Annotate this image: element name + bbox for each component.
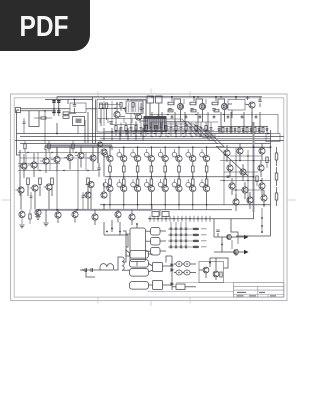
wire <box>174 263 176 265</box>
resistor R5 <box>41 117 46 119</box>
wire <box>230 155 262 157</box>
indicator diode D14 <box>175 246 177 248</box>
junction <box>151 136 152 137</box>
wire <box>206 172 208 177</box>
output transistor Q32 <box>162 186 168 192</box>
wire <box>160 240 166 242</box>
wire <box>175 122 177 126</box>
wire <box>276 160 278 166</box>
op-amp U1 pins <box>146 118 164 130</box>
capacitor C44 <box>255 117 258 118</box>
wire <box>230 127 232 128</box>
wire <box>45 210 47 222</box>
junction <box>151 204 153 206</box>
wire <box>190 272 196 274</box>
transistor Q65 <box>72 211 78 217</box>
indicator diode D7 <box>180 234 182 236</box>
boundary wire <box>56 163 58 210</box>
wire <box>150 192 152 205</box>
bus wire <box>216 176 254 178</box>
wire <box>21 218 23 224</box>
wire <box>23 154 25 163</box>
wire <box>201 179 203 182</box>
indicator diode D9 <box>170 240 172 242</box>
wire <box>255 115 257 117</box>
output transistor Q8 <box>107 156 113 162</box>
base wire <box>28 164 31 166</box>
capacitor C6 <box>109 122 112 124</box>
transformer winding T4 <box>130 282 149 290</box>
emitter resistor R38 <box>178 179 181 185</box>
wire <box>29 210 31 214</box>
junction <box>145 130 147 132</box>
wire <box>109 177 111 179</box>
resistor R12 <box>145 126 147 131</box>
connector J2 body <box>126 101 143 114</box>
wire <box>155 131 157 137</box>
capacitor C5 <box>73 105 76 107</box>
wire <box>242 127 244 129</box>
wire <box>180 129 182 137</box>
diode D18 <box>171 269 173 272</box>
driver transistor Q35 <box>172 182 177 187</box>
junction <box>189 133 191 135</box>
wire <box>104 234 128 236</box>
bus wire <box>105 131 265 133</box>
wire <box>231 110 233 118</box>
wire drop <box>243 112 245 134</box>
junction <box>109 204 111 206</box>
wire drop <box>230 112 232 134</box>
junction <box>159 136 160 137</box>
wire <box>195 122 197 126</box>
wire <box>51 185 53 197</box>
wire <box>150 177 152 179</box>
wire <box>210 123 212 128</box>
wire <box>205 99 207 104</box>
wire <box>74 218 76 223</box>
indicator diode D2 <box>175 228 177 230</box>
thick bus segment <box>38 209 152 211</box>
wire <box>266 127 268 129</box>
wire <box>261 143 263 148</box>
wire <box>164 177 166 179</box>
transistor Q49 <box>46 184 52 190</box>
wire <box>150 147 152 155</box>
left rail wire <box>19 150 21 196</box>
wire <box>130 129 132 137</box>
wire <box>99 104 121 106</box>
junction <box>119 133 121 135</box>
wire <box>139 119 141 124</box>
transistor Q24 <box>249 102 255 108</box>
wire <box>210 258 228 268</box>
wire <box>175 157 176 159</box>
wire <box>175 222 177 226</box>
tap wire <box>189 216 191 222</box>
tap wire <box>173 216 175 222</box>
output wire <box>214 236 244 238</box>
wire <box>230 224 232 228</box>
resistor R14 <box>165 126 167 131</box>
title block column line <box>267 295 269 298</box>
wire <box>131 220 133 225</box>
wire drop <box>197 112 199 134</box>
junction <box>114 108 116 110</box>
resistor R21 <box>238 128 240 132</box>
wire <box>187 179 189 182</box>
wire <box>189 157 190 159</box>
junction <box>261 225 263 227</box>
indicator diode D10 <box>175 240 177 242</box>
wire <box>262 127 264 128</box>
wire <box>147 187 148 189</box>
output transistor Q12 <box>135 156 141 162</box>
wire <box>149 284 153 286</box>
transistor Q2 <box>125 106 131 112</box>
resistor R7 <box>190 102 196 105</box>
wire <box>250 127 252 129</box>
wire <box>137 147 139 155</box>
wire <box>166 256 172 263</box>
wire <box>227 115 229 117</box>
grid column wire <box>180 226 182 249</box>
wire <box>149 270 153 272</box>
junction <box>127 136 128 137</box>
capacitor C10 <box>212 109 215 111</box>
capacitor C7 <box>23 122 26 123</box>
wire <box>185 222 187 226</box>
wire <box>146 230 151 232</box>
top supply bus <box>57 96 262 98</box>
transistor Q59 <box>242 187 248 193</box>
wire <box>45 149 47 158</box>
transformer winding T1 <box>130 251 149 259</box>
junction <box>136 223 138 225</box>
input cable return wire <box>21 110 53 112</box>
tap wire <box>181 216 183 222</box>
wire <box>111 101 113 125</box>
junction <box>205 130 207 132</box>
wire <box>140 123 142 128</box>
wire <box>164 147 166 155</box>
bus wire <box>166 129 224 147</box>
wire <box>92 147 94 155</box>
wire to title block <box>176 282 233 284</box>
tap wire <box>149 216 151 222</box>
wire <box>256 182 258 187</box>
wire <box>100 109 102 127</box>
wire from connector <box>16 110 18 134</box>
capacitor C30 <box>216 230 219 232</box>
junction <box>223 180 224 181</box>
transistor Q62 <box>247 197 253 203</box>
emitter resistor R25 <box>109 166 112 172</box>
bus wire <box>166 124 216 141</box>
wire <box>189 187 190 189</box>
capacitor C29 <box>97 168 100 170</box>
wire <box>131 210 133 214</box>
wire <box>115 119 117 124</box>
inductor L1 <box>122 257 124 270</box>
wire <box>52 108 70 110</box>
wire <box>68 99 93 101</box>
junction <box>39 170 40 171</box>
junction <box>258 130 260 132</box>
resistor R50 <box>191 110 196 112</box>
wire <box>120 123 122 128</box>
junction <box>192 176 194 178</box>
wire <box>164 162 166 166</box>
top centering mark <box>150 89 152 95</box>
wire <box>232 189 264 191</box>
wire <box>137 172 139 177</box>
wire <box>202 114 204 122</box>
indicator diode D16 <box>185 246 187 248</box>
junction <box>127 99 128 100</box>
resistor R58 <box>256 176 258 182</box>
wire <box>135 131 137 137</box>
wire drop <box>259 112 261 134</box>
wire from top <box>56 97 58 101</box>
wire <box>109 192 111 205</box>
capacitor C8 <box>168 109 171 111</box>
relay contact box 2 <box>151 238 161 246</box>
wire <box>103 183 105 192</box>
title text <box>259 292 265 293</box>
title block frame <box>233 283 283 298</box>
emitter resistor R34 <box>123 179 126 185</box>
resistor R55 <box>48 144 50 149</box>
junction <box>226 130 228 132</box>
wire <box>165 131 167 137</box>
bottom zone tick <box>189 297 191 303</box>
ground <box>35 217 40 220</box>
wire <box>201 149 203 152</box>
transistor Q23 <box>221 103 227 109</box>
wire <box>56 163 58 172</box>
wire <box>171 115 173 117</box>
title block column line <box>257 286 259 297</box>
sheet inner border <box>14 98 284 297</box>
diode D19 <box>171 283 173 286</box>
filter capacitor C34 <box>184 262 190 267</box>
wire <box>170 129 172 137</box>
wire <box>57 218 59 223</box>
ground <box>19 225 24 228</box>
voltage reference box <box>228 100 245 111</box>
diode D17 <box>171 264 173 267</box>
resistor R43 <box>51 178 54 185</box>
wire <box>158 103 160 117</box>
connector J2 pins <box>128 103 142 113</box>
wire <box>131 119 133 124</box>
wire <box>206 184 208 187</box>
wire <box>238 132 240 134</box>
wire <box>142 100 144 113</box>
relay contact box 1 <box>151 228 161 236</box>
emitter resistor R26 <box>123 166 126 172</box>
indicator diode D6 <box>175 234 177 236</box>
wire <box>118 179 120 182</box>
label text <box>201 240 207 241</box>
wire <box>200 123 202 128</box>
resistor R24 <box>262 128 264 132</box>
wire <box>135 121 137 128</box>
resistor R52 <box>120 103 122 108</box>
indicator diode D3 <box>180 228 182 230</box>
junction <box>115 130 117 132</box>
wire <box>137 184 139 187</box>
wire <box>90 188 92 210</box>
wire <box>164 205 166 210</box>
wire <box>130 123 132 128</box>
wire <box>117 210 119 212</box>
transistor Q44 <box>67 154 73 160</box>
wire <box>266 130 268 134</box>
wire <box>161 157 162 159</box>
junction <box>154 133 156 135</box>
junction <box>74 99 76 101</box>
thick bus segment <box>45 145 112 147</box>
transistor Q61 <box>233 199 239 205</box>
junction <box>192 146 194 148</box>
wire <box>146 250 151 252</box>
wire <box>229 171 231 177</box>
shield loop wire <box>29 111 39 127</box>
polarity mark <box>178 263 180 265</box>
junction <box>206 146 208 148</box>
wire <box>125 122 127 126</box>
wire <box>57 210 59 212</box>
bus wire <box>20 143 270 145</box>
bus wire <box>20 157 95 159</box>
label text <box>201 234 207 235</box>
grid row wire <box>168 234 192 236</box>
wire <box>218 99 225 104</box>
capacitor C51 <box>227 176 230 177</box>
wire <box>132 179 134 182</box>
transistor Q53 <box>237 148 243 154</box>
wire <box>111 146 113 150</box>
wire drop <box>151 112 153 134</box>
capacitor C43 <box>241 117 244 118</box>
wire <box>115 131 117 137</box>
resistor R16 <box>185 126 187 131</box>
wire <box>123 231 130 256</box>
wire <box>150 172 152 177</box>
output wire <box>214 251 244 253</box>
label text <box>201 246 207 247</box>
shield box <box>70 103 86 113</box>
wire <box>192 205 194 210</box>
wire <box>104 149 106 152</box>
capacitor C2 <box>57 101 60 103</box>
wire <box>23 118 25 122</box>
output arrow <box>244 250 249 254</box>
junction <box>235 189 237 191</box>
wire <box>163 284 173 286</box>
wire <box>277 115 279 134</box>
wire <box>109 147 111 155</box>
wire <box>215 277 217 280</box>
relay contact Q60b <box>234 249 239 254</box>
junction <box>193 96 195 98</box>
indicator diode D5 <box>170 234 172 236</box>
wire <box>123 147 125 155</box>
junction <box>263 204 265 206</box>
wire <box>87 185 89 197</box>
capacitor C49 <box>30 196 33 197</box>
wire <box>30 198 32 210</box>
wire <box>246 132 248 134</box>
thick vertical bus <box>97 147 99 163</box>
wire <box>259 97 261 100</box>
wire <box>69 147 71 155</box>
junction <box>220 96 222 98</box>
wire <box>84 120 86 143</box>
junction <box>235 160 236 161</box>
capacitor C27 <box>258 129 261 130</box>
junction <box>205 218 206 219</box>
transistor Q58 <box>229 183 235 189</box>
vertical supply wire <box>95 100 97 144</box>
junction <box>161 133 163 135</box>
transistor Q51 <box>88 181 94 187</box>
wire <box>196 99 203 104</box>
wire <box>224 110 226 114</box>
wire <box>160 179 162 182</box>
capacitor C3 <box>52 111 55 113</box>
regulator box <box>176 284 185 290</box>
wire <box>218 127 220 129</box>
junction <box>270 146 272 148</box>
driver transistor Q19 <box>172 152 177 157</box>
wire <box>180 114 182 122</box>
transistor Q21 <box>177 103 183 109</box>
wire <box>231 228 238 237</box>
indicator label blob <box>193 246 200 248</box>
wire <box>106 109 108 121</box>
junction <box>215 96 217 98</box>
wire <box>94 220 96 225</box>
wire <box>206 147 208 155</box>
capacitor C4 <box>57 111 60 113</box>
capacitor C38 <box>171 117 174 118</box>
emitter resistor R28 <box>150 166 153 172</box>
wire <box>165 122 167 126</box>
wire <box>230 219 232 224</box>
wire <box>234 130 236 134</box>
junction <box>175 136 176 137</box>
junction <box>261 217 263 219</box>
emitter resistor R36 <box>150 179 153 185</box>
bus wire <box>115 130 214 132</box>
output transistor Q34 <box>176 186 182 192</box>
wire <box>137 162 139 166</box>
wire <box>123 162 125 166</box>
wire <box>258 130 260 134</box>
wire <box>149 264 153 267</box>
junction <box>143 136 144 137</box>
resistor R8 <box>212 102 218 105</box>
resistor R51 <box>214 110 219 112</box>
wire <box>192 177 194 179</box>
bridge rectifier BR2 <box>153 281 163 290</box>
wire <box>103 205 105 210</box>
transistor Q46 <box>90 155 96 161</box>
capacitor C31 <box>162 212 169 217</box>
